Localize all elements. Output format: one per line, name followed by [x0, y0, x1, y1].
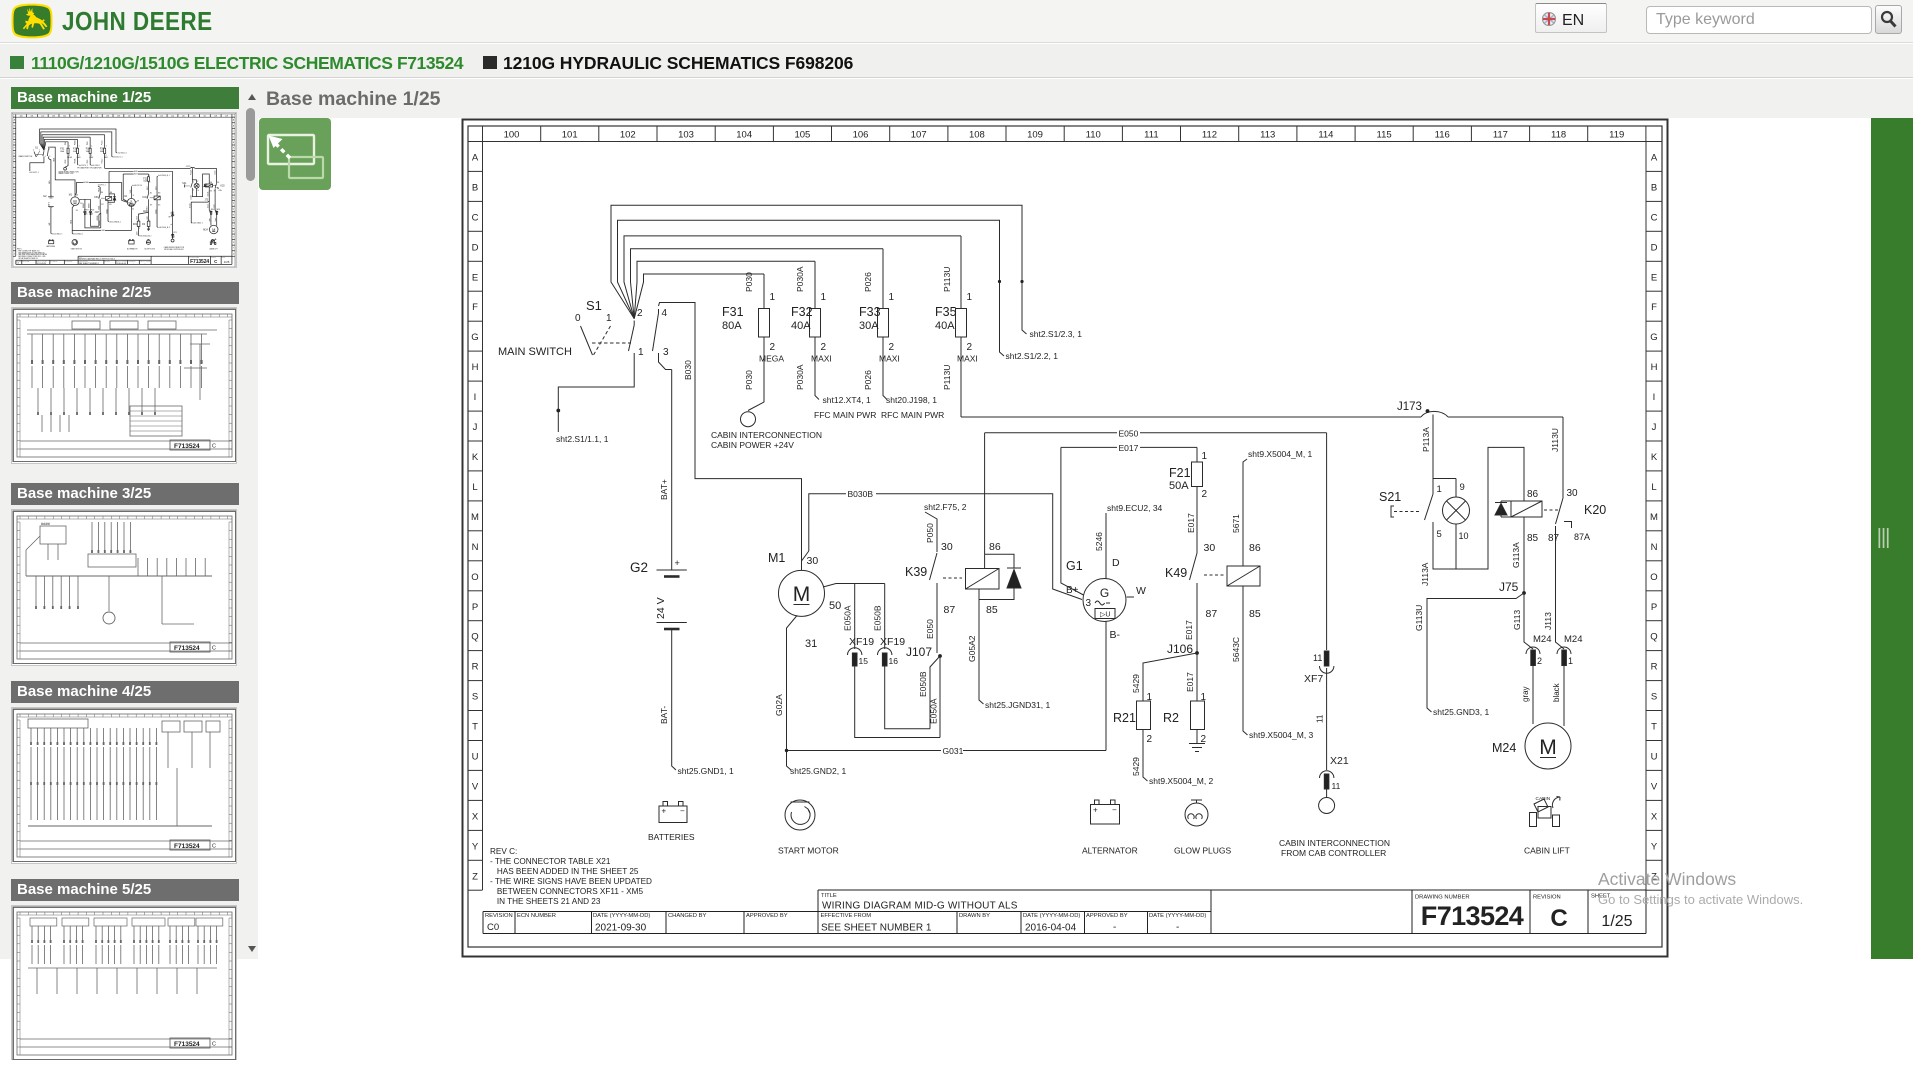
svg-text:P026: P026	[863, 370, 873, 390]
svg-text:3: 3	[1086, 598, 1092, 609]
svg-text:B: B	[1651, 182, 1657, 193]
svg-text:E: E	[1651, 272, 1657, 283]
svg-text:BAT-: BAT-	[659, 706, 669, 724]
svg-text:5: 5	[1437, 529, 1442, 540]
svg-text:A: A	[1651, 153, 1658, 164]
svg-text:E017: E017	[1185, 672, 1195, 692]
wire bus to sht2.S1/2.2	[618, 220, 1059, 361]
svg-text:1: 1	[1202, 451, 1208, 462]
svg-text:9: 9	[1460, 482, 1465, 493]
svg-text:+: +	[1093, 806, 1098, 815]
svg-text:T: T	[472, 722, 478, 733]
svg-text:2: 2	[821, 342, 827, 353]
svg-text:J113A: J113A	[1420, 562, 1430, 586]
svg-text:EFFECTIVE FROM: EFFECTIVE FROM	[821, 913, 872, 919]
wire bus to fuse F33	[631, 249, 884, 319]
svg-text:ALTERNATOR: ALTERNATOR	[1082, 846, 1138, 856]
svg-text:1: 1	[1568, 656, 1573, 666]
svg-text:U: U	[1651, 752, 1658, 763]
wire G05A2 to sht25.JGND31	[967, 589, 1050, 710]
svg-text:C0: C0	[487, 922, 499, 933]
svg-text:CABIN POWER +24V: CABIN POWER +24V	[711, 440, 794, 450]
svg-text:sht9.ECU2, 34: sht9.ECU2, 34	[1107, 503, 1163, 513]
svg-text:REVISION: REVISION	[485, 913, 513, 919]
connector XF7 pin 11	[1304, 651, 1334, 770]
svg-text:XF19: XF19	[849, 636, 874, 648]
svg-text:P: P	[1651, 602, 1657, 613]
svg-text:ECN NUMBER: ECN NUMBER	[517, 913, 556, 919]
svg-text:M: M	[793, 583, 811, 606]
svg-text:24 V: 24 V	[655, 597, 667, 619]
svg-text:F: F	[1651, 302, 1657, 313]
svg-text:2: 2	[770, 342, 776, 353]
connector M24 pin 1 (black wire)	[1552, 634, 1582, 726]
svg-text:115: 115	[1377, 130, 1392, 141]
junction J107	[906, 645, 942, 659]
svg-text:110: 110	[1086, 130, 1101, 141]
svg-text:J113: J113	[1543, 612, 1553, 630]
wire bus to sht2.S1/2.3	[611, 205, 1082, 339]
svg-text:G113U: G113U	[1414, 605, 1424, 631]
svg-text:▷U: ▷U	[1100, 612, 1110, 619]
wire bus to fuse F31	[634, 274, 764, 319]
svg-text:E017: E017	[1186, 513, 1196, 533]
svg-text:XF19: XF19	[880, 636, 905, 648]
svg-text:E050: E050	[925, 619, 935, 639]
svg-text:G02A: G02A	[774, 694, 784, 716]
svg-text:2: 2	[1147, 734, 1153, 745]
svg-text:- THE CONNECTOR TABLE X21: - THE CONNECTOR TABLE X21	[490, 857, 611, 866]
ground symbol (R2)	[1189, 744, 1205, 752]
svg-text:X: X	[472, 811, 479, 822]
svg-text:-: -	[1176, 922, 1179, 933]
svg-text:sht9.X5004_M, 2: sht9.X5004_M, 2	[1149, 776, 1214, 786]
svg-text:M: M	[471, 512, 479, 523]
svg-text:P030: P030	[744, 370, 754, 390]
fuse F33 30A MAXI	[859, 249, 900, 400]
svg-text:TITLE: TITLE	[821, 893, 837, 899]
wire 5643C to sht9.X5004_M,3	[1231, 586, 1314, 740]
svg-text:10: 10	[1459, 531, 1469, 541]
wire J113U	[1550, 417, 1563, 494]
svg-text:M24: M24	[1533, 634, 1551, 645]
svg-text:1: 1	[1437, 484, 1442, 495]
svg-text:−: −	[680, 807, 685, 816]
svg-text:B030: B030	[683, 360, 693, 380]
svg-text:C: C	[1651, 212, 1658, 223]
svg-text:X21: X21	[1330, 755, 1349, 767]
svg-text:DATE (YYYY-MM-DD): DATE (YYYY-MM-DD)	[593, 913, 650, 919]
svg-text:111: 111	[1144, 130, 1158, 141]
svg-text:S1: S1	[586, 298, 602, 313]
svg-text:S: S	[472, 692, 478, 703]
svg-text:85: 85	[1527, 533, 1539, 544]
svg-text:107: 107	[911, 130, 927, 141]
svg-text:G: G	[1100, 586, 1109, 600]
terminal circle from cab controller	[1319, 798, 1335, 814]
icon start motor	[778, 800, 839, 856]
svg-text:86: 86	[1249, 542, 1261, 554]
svg-text:Z: Z	[472, 871, 478, 882]
wire G113U to sht25.GND3	[1414, 593, 1524, 717]
svg-text:113: 113	[1260, 130, 1275, 141]
svg-text:K49: K49	[1165, 566, 1187, 580]
svg-text:85: 85	[1249, 608, 1261, 620]
svg-text:E: E	[472, 272, 478, 283]
svg-text:V: V	[472, 781, 479, 792]
svg-text:Q: Q	[1650, 632, 1657, 643]
svg-text:MAIN SWITCH: MAIN SWITCH	[498, 346, 572, 358]
svg-text:86: 86	[1527, 489, 1539, 500]
svg-text:J107: J107	[906, 645, 932, 659]
junction J75	[1499, 580, 1526, 595]
svg-text:N: N	[472, 542, 479, 553]
wire bus to fuse F35	[624, 236, 961, 319]
svg-text:MAXI: MAXI	[811, 354, 832, 364]
svg-text:C: C	[1550, 905, 1567, 932]
svg-text:M24: M24	[1564, 634, 1582, 645]
relay K20 switch 30/87/87A	[1544, 488, 1590, 544]
junction / net reference sht2.S1/1.1	[556, 409, 609, 444]
net reference sht12.XT4 FFC MAIN PWR	[814, 395, 876, 420]
svg-text:30A: 30A	[859, 320, 879, 332]
svg-text:DATE (YYYY-MM-DD): DATE (YYYY-MM-DD)	[1149, 913, 1206, 919]
svg-text:RFC MAIN PWR: RFC MAIN PWR	[881, 410, 944, 420]
svg-text:I: I	[1653, 392, 1656, 403]
svg-text:J113U: J113U	[1550, 428, 1560, 452]
wire J113A to K20 coil	[1420, 447, 1524, 586]
svg-text:1: 1	[638, 347, 644, 358]
svg-text:116: 116	[1435, 130, 1450, 141]
svg-text:P113U: P113U	[942, 365, 952, 390]
svg-text:2: 2	[967, 342, 973, 353]
wire bus to fuse F32	[634, 261, 815, 318]
svg-text:FFC MAIN PWR: FFC MAIN PWR	[814, 410, 876, 420]
svg-text:R21: R21	[1113, 711, 1136, 725]
svg-text:G031: G031	[943, 746, 964, 756]
svg-text:L: L	[472, 482, 477, 493]
lamp (S21 indicator light) pins 9/10	[1433, 479, 1470, 570]
wire E050A (J107 down)	[929, 656, 941, 738]
svg-text:HAS BEEN ADDED IN THE SHEET 25: HAS BEEN ADDED IN THE SHEET 25	[490, 867, 639, 876]
svg-text:P113A: P113A	[1421, 427, 1431, 452]
connector X21 pin 11	[1320, 755, 1349, 798]
switch S1 (main switch)	[498, 298, 672, 432]
svg-text:30: 30	[1204, 542, 1216, 554]
relay K20 coil	[1511, 489, 1606, 517]
svg-text:sht9.X5004_M, 3: sht9.X5004_M, 3	[1249, 730, 1314, 740]
svg-text:P030: P030	[744, 272, 754, 292]
svg-text:B030B: B030B	[848, 489, 874, 499]
svg-text:DRAWING NUMBER: DRAWING NUMBER	[1415, 895, 1470, 901]
svg-text:50A: 50A	[1169, 480, 1189, 492]
switch S21	[1379, 484, 1442, 558]
relay K49 switch	[1165, 542, 1224, 653]
svg-text:MEGA: MEGA	[759, 354, 784, 364]
svg-text:E050A: E050A	[929, 698, 939, 724]
svg-text:P026: P026	[863, 272, 873, 292]
net reference sht9.X5004_M,1 / wire 5671	[1231, 449, 1313, 566]
connector XF19 pin 15	[848, 636, 875, 666]
svg-text:2021-09-30: 2021-09-30	[595, 923, 647, 934]
svg-text:N: N	[1651, 542, 1658, 553]
svg-text:J: J	[1652, 422, 1657, 433]
svg-text:−: −	[1112, 806, 1117, 815]
svg-text:W: W	[1136, 585, 1146, 597]
svg-text:117: 117	[1493, 130, 1508, 141]
svg-text:106: 106	[853, 130, 869, 141]
svg-text:BAT+: BAT+	[659, 479, 669, 500]
fuse F21 50A	[1169, 447, 1208, 553]
svg-text:K: K	[472, 452, 479, 463]
wire P113 distribution (J173 feed)	[961, 411, 1563, 417]
svg-text:sht12.XT4, 1: sht12.XT4, 1	[823, 395, 871, 405]
relay K49 coil	[1227, 566, 1260, 586]
svg-text:U: U	[472, 752, 479, 763]
svg-text:CABIN INTERCONNECTION: CABIN INTERCONNECTION	[711, 430, 822, 440]
svg-text:1: 1	[821, 292, 827, 303]
svg-text:D: D	[1112, 557, 1120, 569]
svg-text:+: +	[675, 558, 680, 568]
svg-text:5246: 5246	[1094, 532, 1104, 551]
resistor R21	[1113, 653, 1197, 781]
svg-text:G05A2: G05A2	[967, 635, 977, 662]
svg-text:E017: E017	[1184, 620, 1194, 640]
svg-text:114: 114	[1318, 130, 1333, 141]
svg-text:BATTERIES: BATTERIES	[648, 832, 695, 842]
svg-text:S21: S21	[1379, 490, 1401, 504]
alternator G1	[1066, 559, 1146, 641]
svg-text:FROM CAB CONTROLLER: FROM CAB CONTROLLER	[1281, 848, 1386, 858]
svg-text:11: 11	[1316, 714, 1325, 723]
svg-text:sht2.F75, 2: sht2.F75, 2	[924, 502, 967, 512]
wire P113A	[1421, 415, 1433, 488]
svg-text:15: 15	[859, 656, 869, 666]
connector M24 pin 2 (gray wire)	[1521, 634, 1551, 724]
wire G113A	[1511, 517, 1539, 593]
svg-text:31: 31	[805, 638, 817, 650]
wire G113	[1512, 593, 1533, 649]
svg-text:sht9.X5004_M, 1: sht9.X5004_M, 1	[1248, 449, 1313, 459]
svg-text:M24: M24	[1492, 741, 1516, 755]
svg-text:P030A: P030A	[795, 266, 805, 292]
svg-text:sht2.S1/2.2, 1: sht2.S1/2.2, 1	[1006, 351, 1059, 361]
svg-text:M: M	[1539, 736, 1557, 759]
svg-text:103: 103	[678, 130, 694, 141]
svg-text:F: F	[472, 302, 478, 313]
svg-text:B: B	[472, 182, 478, 193]
svg-text:I: I	[474, 392, 477, 403]
svg-text:MAXI: MAXI	[879, 354, 900, 364]
svg-text:Q: Q	[471, 632, 478, 643]
svg-text:F713524: F713524	[1421, 901, 1524, 931]
net reference sht9.ECU2,34 / wire 5246	[1094, 503, 1163, 579]
svg-text:R: R	[1651, 662, 1658, 673]
svg-text:3: 3	[663, 347, 669, 358]
svg-text:B-: B-	[1110, 629, 1121, 641]
svg-text:G2: G2	[630, 560, 648, 575]
wire E017 to G1 B+	[1061, 447, 1084, 595]
svg-text:119: 119	[1609, 130, 1624, 141]
svg-text:1: 1	[770, 292, 776, 303]
connector XF19 pin 16	[878, 636, 906, 666]
wire E050A/E050B from M1 50 to XF19	[823, 584, 885, 650]
diode (K39 suppression)	[979, 568, 1021, 600]
starter motor M1	[768, 551, 841, 650]
svg-text:E050: E050	[1119, 429, 1139, 439]
svg-text:118: 118	[1551, 130, 1566, 141]
svg-text:Y: Y	[472, 841, 479, 852]
svg-text:11: 11	[1313, 653, 1322, 663]
svg-text:A: A	[472, 153, 479, 164]
svg-text:5429: 5429	[1131, 674, 1141, 693]
svg-text:Y: Y	[1651, 841, 1658, 852]
svg-text:87: 87	[1548, 533, 1560, 544]
svg-text:sht25.GND3, 1: sht25.GND3, 1	[1433, 707, 1489, 717]
svg-text:2: 2	[889, 342, 895, 353]
svg-text:1: 1	[967, 292, 973, 303]
icon alternator	[1082, 800, 1138, 856]
svg-text:G1: G1	[1066, 559, 1083, 573]
net reference sht20.J198 RFC MAIN PWR	[881, 395, 944, 420]
svg-text:80A: 80A	[722, 320, 742, 332]
svg-text:16: 16	[889, 656, 899, 666]
svg-text:O: O	[1650, 572, 1657, 583]
svg-text:0: 0	[575, 313, 581, 324]
svg-text:CABIN LIFT: CABIN LIFT	[1524, 846, 1570, 856]
motor M24 cabin lift	[1492, 723, 1571, 769]
svg-text:GLOW PLUGS: GLOW PLUGS	[1174, 846, 1231, 856]
svg-text:G113: G113	[1512, 610, 1522, 630]
wire E017	[1061, 443, 1197, 453]
svg-text:sht25.GND2, 1: sht25.GND2, 1	[790, 766, 846, 776]
svg-text:SEE SHEET NUMBER 1: SEE SHEET NUMBER 1	[821, 923, 932, 934]
svg-text:5643C: 5643C	[1231, 637, 1241, 662]
svg-text:1: 1	[606, 313, 612, 324]
svg-text:T: T	[1651, 722, 1657, 733]
svg-text:87A: 87A	[1574, 532, 1590, 542]
svg-text:sht25.GND1, 1: sht25.GND1, 1	[678, 766, 734, 776]
wire B030B	[802, 489, 1083, 600]
svg-text:J: J	[473, 422, 478, 433]
svg-text:S: S	[1651, 692, 1657, 703]
svg-text:4: 4	[662, 308, 668, 319]
svg-text:L: L	[1651, 482, 1656, 493]
svg-text:2016-04-04: 2016-04-04	[1025, 923, 1077, 934]
svg-text:1: 1	[889, 292, 895, 303]
svg-text:108: 108	[969, 130, 985, 141]
svg-text:G113A: G113A	[1511, 542, 1521, 568]
svg-text:-: -	[1113, 922, 1116, 933]
svg-text:K: K	[1651, 452, 1658, 463]
label cabin interconnection from cab controller	[1279, 838, 1390, 858]
diode (K20 suppression)	[1495, 501, 1511, 517]
battery G2 24V	[630, 370, 687, 771]
fuse F31 80A MEGA	[722, 272, 784, 411]
connector: cabin interconnection cabin power +24V	[711, 412, 822, 450]
svg-text:30: 30	[941, 541, 953, 553]
svg-text:sht20.J198, 1: sht20.J198, 1	[886, 395, 937, 405]
svg-text:101: 101	[562, 130, 578, 141]
junction dots on bus drops	[998, 280, 1024, 283]
svg-text:100: 100	[504, 130, 520, 141]
svg-text:P: P	[472, 602, 478, 613]
svg-text:2: 2	[1537, 656, 1542, 666]
svg-text:CHANGED BY: CHANGED BY	[668, 913, 706, 919]
svg-text:REVISION: REVISION	[1533, 895, 1561, 901]
svg-text:black: black	[1552, 682, 1561, 702]
svg-text:V: V	[1651, 781, 1658, 792]
svg-text:2: 2	[1202, 489, 1208, 500]
svg-text:C: C	[472, 212, 479, 223]
svg-text:J75: J75	[1499, 580, 1519, 594]
svg-text:APPROVED BY: APPROVED BY	[1086, 913, 1128, 919]
svg-text:BETWEEN CONNECTORS XF11 - XM5: BETWEEN CONNECTORS XF11 - XM5	[490, 887, 643, 896]
svg-text:K39: K39	[905, 565, 927, 579]
svg-text:F713524: F713524	[174, 1041, 200, 1048]
relay K39 coil	[966, 541, 1015, 589]
svg-text:5671: 5671	[1231, 514, 1241, 533]
svg-text:DRAWN BY: DRAWN BY	[959, 913, 990, 919]
svg-text:40A: 40A	[791, 320, 811, 332]
fuse F32 40A MAXI	[791, 261, 832, 399]
svg-text:IN THE SHEETS 21 AND 23: IN THE SHEETS 21 AND 23	[490, 897, 601, 906]
svg-text:87: 87	[1206, 608, 1218, 620]
svg-text:sht2.S1/2.3, 1: sht2.S1/2.3, 1	[1030, 329, 1083, 339]
resistor R2	[1163, 653, 1207, 745]
svg-text:gray: gray	[1521, 686, 1530, 702]
svg-text:DATE (YYYY-MM-DD): DATE (YYYY-MM-DD)	[1023, 913, 1080, 919]
svg-text:P050: P050	[925, 523, 935, 543]
svg-text:P030A: P030A	[795, 364, 805, 390]
svg-text:sht2.S1/1.1, 1: sht2.S1/1.1, 1	[556, 434, 609, 444]
svg-text:J173: J173	[1397, 401, 1422, 413]
svg-text:- THE WIRE SIGNS HAVE BEEN UPD: - THE WIRE SIGNS HAVE BEEN UPDATED	[490, 877, 652, 886]
svg-text:X: X	[1651, 811, 1658, 822]
junction J173	[1397, 401, 1429, 413]
svg-text:WIRING DIAGRAM MID-G WITHOUT A: WIRING DIAGRAM MID-G WITHOUT ALS	[822, 901, 1018, 912]
relay K39 switch	[905, 541, 962, 653]
icon cabin lift	[1524, 796, 1570, 856]
svg-text:sht25.JGND31, 1: sht25.JGND31, 1	[985, 700, 1050, 710]
svg-text:D: D	[1651, 242, 1658, 253]
wire B- / G031	[787, 622, 1107, 757]
svg-text:CABIN INTERCONNECTION: CABIN INTERCONNECTION	[1279, 838, 1390, 848]
net reference sht2.F75 / wire P050	[924, 502, 967, 552]
svg-text:G: G	[471, 332, 478, 343]
svg-text:E050A: E050A	[843, 605, 853, 631]
svg-text:REV C:: REV C:	[490, 847, 517, 856]
svg-text:D: D	[472, 242, 479, 253]
svg-text:30: 30	[1567, 488, 1579, 499]
svg-text:1/25: 1/25	[1601, 913, 1632, 930]
svg-text:XF7: XF7	[1304, 673, 1323, 685]
wire J113	[1543, 526, 1564, 649]
svg-text:K20: K20	[1584, 503, 1606, 517]
svg-text:2: 2	[637, 308, 643, 319]
icon batteries	[648, 802, 695, 843]
svg-text:F33: F33	[859, 305, 881, 319]
svg-text:109: 109	[1027, 130, 1043, 141]
svg-text:30: 30	[807, 555, 819, 567]
fuse F35 40A MAXI	[935, 236, 978, 417]
svg-text:MAXI: MAXI	[957, 354, 978, 364]
icon glow plugs	[1174, 800, 1231, 856]
svg-text:11: 11	[1332, 781, 1341, 791]
svg-text:+: +	[662, 807, 667, 816]
wire B030 (S1 to M1 30)	[663, 303, 802, 571]
svg-text:86: 86	[989, 541, 1001, 553]
